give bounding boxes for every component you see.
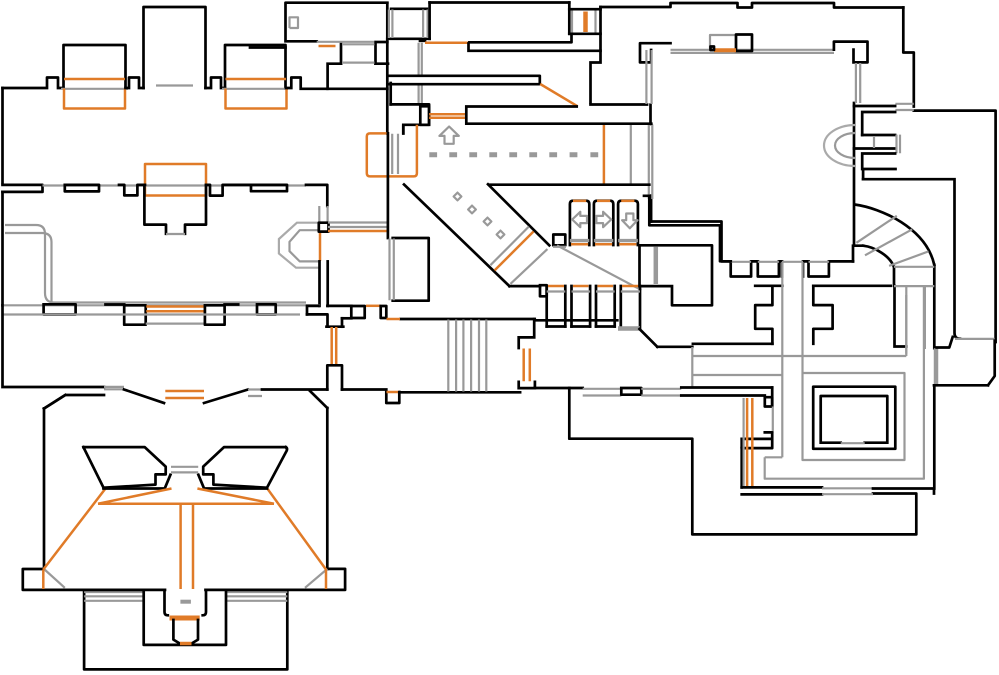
gray pillar line <box>630 125 632 185</box>
hallway north wall lines <box>466 107 651 124</box>
east wall spine <box>853 103 856 246</box>
gray wall fill <box>43 184 307 186</box>
cross-door rail gray 1 <box>490 227 529 266</box>
sill A2 gray <box>156 84 193 86</box>
pocket tooth 2 (wide) <box>742 432 773 448</box>
dashed walk line <box>429 152 598 157</box>
big room north rails gray <box>671 50 835 53</box>
corridor floor <box>387 37 429 40</box>
left arrow icon <box>572 212 587 227</box>
door leaf orange thick <box>583 12 588 33</box>
stall bottoms <box>547 325 615 328</box>
door rails gray <box>572 11 596 33</box>
wall + notch <box>126 78 144 89</box>
up arrow icon <box>439 127 458 144</box>
orange fan E <box>197 489 274 504</box>
gray door S <box>822 488 873 494</box>
node rails gray <box>319 206 327 222</box>
diamond tread 4 <box>497 231 505 239</box>
north door orange <box>714 48 736 52</box>
wall y320 under stalls <box>519 319 618 348</box>
orange tip <box>180 642 192 646</box>
west diagonal wall <box>404 185 509 287</box>
octagon apse outer <box>279 223 319 268</box>
center jamb box <box>621 388 641 395</box>
orange ledge line <box>98 502 274 505</box>
wall E of vertical door <box>535 387 583 390</box>
pocket step wall E <box>771 388 774 407</box>
east wall of stall area <box>644 196 731 261</box>
capsule 1 <box>44 304 76 314</box>
E top bar <box>854 106 895 135</box>
east door rails gray <box>856 63 860 103</box>
north roof with steps <box>601 3 904 8</box>
gray tracks <box>547 290 640 292</box>
curved stair inner wall <box>863 246 894 267</box>
orange pillar line <box>603 125 606 185</box>
west arm rails gray <box>692 347 906 387</box>
SE step out <box>287 569 345 590</box>
gray chamfers at bottom corners <box>44 569 327 588</box>
funnel wall E <box>204 390 248 404</box>
SE edge <box>342 317 351 320</box>
pocket gray rail W <box>742 398 744 487</box>
west jog of entry <box>591 7 601 103</box>
orange chute rails <box>181 504 193 589</box>
stair corridor walls <box>894 265 934 348</box>
south passage (open) <box>782 261 809 276</box>
SW edge + stem west wall <box>307 314 328 326</box>
pedestal neck flare <box>165 475 204 489</box>
orange recess below A1 <box>64 89 125 109</box>
south teeth alcove 2 <box>758 261 782 276</box>
south double wall <box>742 487 822 494</box>
bowl floor <box>104 487 268 490</box>
wall + pocket 2 <box>206 185 251 196</box>
door sill A3 (orange) <box>226 78 287 81</box>
small mid room <box>393 238 429 301</box>
orange slope W <box>43 489 105 589</box>
octagon apse inner <box>290 230 319 261</box>
east diagonal wall <box>488 184 549 245</box>
gray part of its south wall <box>317 41 376 43</box>
rails below corridor <box>419 43 422 104</box>
stall 1 <box>570 201 589 245</box>
funnel wall W <box>124 390 164 404</box>
room door rails gray <box>392 134 398 174</box>
NW corner of crossing <box>307 306 319 315</box>
second gray wall line <box>3 313 301 315</box>
wall bit <box>225 303 239 306</box>
upper-room south wall <box>3 305 105 387</box>
big room west wall segments <box>649 105 652 222</box>
east wall <box>326 408 329 569</box>
wall y104 <box>391 104 429 133</box>
central room outer <box>813 387 895 449</box>
bowl left wing <box>83 447 165 488</box>
orange door east <box>366 305 381 308</box>
pocket orange door rails <box>747 398 752 487</box>
ledge A3 gray <box>222 88 288 90</box>
gray ledge at far SE <box>955 338 995 340</box>
room R door bar gray <box>654 247 659 284</box>
chamfer NE <box>310 391 327 408</box>
bowl right wing <box>203 447 287 488</box>
door to big room (jamb lines) <box>569 9 600 34</box>
door jamb box W <box>124 305 146 324</box>
passage jambs above ledge <box>341 43 376 63</box>
pocket W side <box>740 448 743 487</box>
chalice stem <box>173 620 198 644</box>
wall y488 E <box>873 489 934 494</box>
inner shaft <box>84 590 287 645</box>
big north room <box>286 3 388 42</box>
east room <box>934 337 995 385</box>
NE room west wall <box>428 3 431 39</box>
E bottom bar <box>862 154 895 180</box>
orange room below A2 <box>145 164 206 196</box>
wall + notch <box>206 78 226 89</box>
door track gray <box>146 323 206 325</box>
node square by stalls <box>553 235 565 246</box>
NE room roof <box>430 1 570 4</box>
tiny post <box>711 47 715 51</box>
double lintel right of A3 <box>250 46 286 49</box>
jamb box <box>351 306 364 318</box>
north corridor east wall <box>326 261 329 306</box>
bowl gray door <box>171 467 198 473</box>
long gray base <box>3 304 321 306</box>
NE corner of room <box>306 185 327 206</box>
door posts <box>547 286 640 329</box>
wall y286 jambs E <box>755 284 891 287</box>
corridor roof <box>391 7 427 10</box>
wall y104 to room <box>591 103 648 106</box>
grate gray verticals <box>448 320 486 392</box>
slot divider gray <box>873 137 875 148</box>
room R outline <box>640 245 713 305</box>
passage rails gray <box>342 44 375 62</box>
orange-top box <box>386 392 399 403</box>
vertical door (orange) <box>519 382 535 388</box>
pocket tooth rail gray <box>772 407 774 433</box>
diamond tread 2 <box>468 206 476 214</box>
capsule lintel 2 <box>251 185 287 191</box>
player start dash gray <box>180 600 191 604</box>
wall + pocket 1 <box>119 185 145 196</box>
big room NE corner block <box>834 42 868 63</box>
south passage gray bar <box>618 326 640 331</box>
NE room east wall <box>568 3 571 34</box>
orange room W of hallway <box>367 125 417 177</box>
stair rails down gray <box>906 286 925 354</box>
north arm rails gray <box>782 262 802 457</box>
stem east wall <box>341 318 344 326</box>
passage slant <box>640 329 693 347</box>
gray rounded corridor outer <box>5 225 306 303</box>
attic door rails gray <box>895 104 913 110</box>
wall y179 and east drop <box>863 179 960 339</box>
orange lintels <box>548 285 639 288</box>
inner ledge + chamfer <box>44 395 104 409</box>
gray steps W <box>84 592 144 601</box>
orange sill on ledge <box>319 45 336 48</box>
wall bit <box>106 303 125 306</box>
diamond tread 3 <box>484 218 492 226</box>
gray door rails 2 <box>641 389 681 396</box>
step up to ledge y63.5 <box>328 64 388 89</box>
big room south wall + step <box>651 222 731 262</box>
gray door E <box>248 390 262 397</box>
corridor door rails gray <box>389 10 428 39</box>
slot end rails gray <box>897 135 901 154</box>
west wall door rails <box>646 50 652 199</box>
NE south wall A <box>469 34 571 43</box>
wall y319 <box>401 318 535 321</box>
south teeth alcove 4 <box>809 261 854 276</box>
north double wall segment 1 <box>3 185 43 192</box>
long gray sight line <box>557 245 641 290</box>
corridor walls through room <box>388 125 403 238</box>
gray sill below node <box>553 246 566 248</box>
east passage rails gray <box>328 223 388 228</box>
orange bit on y319 <box>387 318 401 321</box>
wall to bump <box>262 388 327 391</box>
SE step wall <box>569 388 916 534</box>
stall 2 <box>594 201 613 245</box>
tall alcove box A2 <box>144 7 206 88</box>
south teeth alcove 1 <box>731 261 758 276</box>
east stepped corner <box>903 8 995 343</box>
semicircle niche outer arc <box>824 125 855 166</box>
NE edge of crossing <box>327 305 351 308</box>
stair steps gray radials <box>856 216 928 266</box>
alcove hanging below A2 room <box>144 185 206 234</box>
wall y286 west of doors <box>509 285 540 288</box>
orange slope E <box>268 489 327 589</box>
capsule 2 <box>257 304 276 314</box>
right arrow icon <box>596 212 611 227</box>
big room NW corner block <box>640 43 671 62</box>
hallway south wall <box>489 183 649 186</box>
NE south wall B <box>469 44 601 51</box>
capsule lintel 1 <box>65 185 99 192</box>
wall below octagon <box>318 261 321 306</box>
ledge A1 gray <box>61 88 128 90</box>
orange fan W <box>98 489 172 504</box>
inner ring gray <box>803 373 905 460</box>
wall + notch to ledge <box>286 78 327 89</box>
wall to box <box>342 388 386 391</box>
central room door gray <box>841 442 865 444</box>
wall to grate <box>399 391 520 394</box>
door jamb box E <box>205 305 225 324</box>
east passage orange line <box>328 230 388 233</box>
doorway bump up <box>327 365 342 389</box>
corridor west wall (thick) <box>386 3 389 134</box>
SW step out <box>23 569 84 590</box>
orange door center <box>165 391 204 398</box>
cross-door orange <box>495 232 534 271</box>
NE room south: stub + orange sill <box>420 39 425 42</box>
orange bar wide <box>170 616 200 621</box>
north wall y=88 with notches <box>3 78 64 89</box>
semicircle niche inner arc <box>835 133 855 158</box>
chamfer NW <box>44 395 65 409</box>
diamond tread 1 <box>454 193 462 201</box>
gray steps E <box>226 592 287 601</box>
door sill A1 (orange) <box>64 78 125 81</box>
thin double corridor <box>389 76 540 84</box>
jamb box <box>540 285 547 296</box>
west outer wall <box>1 88 4 183</box>
gray rounded corridor inner <box>5 233 52 302</box>
stem bottom <box>327 325 344 328</box>
cross-door rail gray 2 <box>510 249 547 284</box>
chalice throat <box>165 590 207 615</box>
north arm jambs <box>755 286 832 344</box>
west arm bottom double wall <box>681 388 772 396</box>
west wall lower <box>1 192 4 305</box>
small gray closet inside <box>290 17 299 28</box>
west arm top <box>693 342 773 345</box>
down arrow icon <box>622 214 637 229</box>
orange ramp diagonal <box>540 84 577 106</box>
north black box <box>736 35 752 52</box>
curved stair outer wall <box>855 205 935 265</box>
door jamb box west <box>420 106 429 125</box>
gray door rails <box>583 389 622 396</box>
E slot <box>854 135 895 149</box>
north alcove gray box <box>710 35 736 50</box>
stair corridor steps gray <box>894 267 934 286</box>
alcove box A3 <box>225 45 286 88</box>
bottom room <box>84 590 287 670</box>
pocket tooth 1 <box>765 397 772 406</box>
gray door W <box>104 387 124 389</box>
jamb box 2 <box>381 306 387 318</box>
west wall <box>43 409 46 570</box>
node square <box>319 223 329 232</box>
outer ring gray <box>765 286 924 479</box>
orange recess below A3 <box>226 89 287 109</box>
orange stem rails <box>332 327 337 365</box>
door leaves orange <box>429 114 466 118</box>
stall 3 <box>618 201 638 245</box>
door leaves orange <box>146 307 204 312</box>
alcove box A1 <box>64 45 126 88</box>
east boundary + door bar <box>933 385 936 488</box>
corridor west wall <box>389 83 392 104</box>
central room inner <box>821 396 888 443</box>
step to curve <box>853 246 863 262</box>
mid room west rails <box>390 239 394 301</box>
octagon mouth door orange <box>319 231 322 262</box>
